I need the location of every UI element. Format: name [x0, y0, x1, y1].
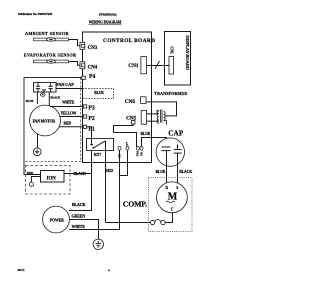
svg-text:Publication No. 5995547290: Publication No. 5995547290: [18, 12, 53, 16]
svg-text:WHITE: WHITE: [72, 224, 86, 229]
svg-text:WIRING DIAGRAM: WIRING DIAGRAM: [89, 21, 122, 25]
wire ambient sensor to CN3: [69, 40, 81, 46]
svg-text:GREEN: GREEN: [72, 214, 86, 219]
svg-text:S: S: [176, 186, 178, 190]
connector CN3: [80, 42, 85, 49]
dashed blue box on board: [83, 89, 114, 99]
svg-text:CAP: CAP: [168, 130, 184, 137]
svg-text:RED: RED: [105, 168, 113, 173]
wire power white: [69, 150, 120, 230]
cap case marker: [41, 93, 46, 96]
wire CN6 to transformer secondary: [146, 102, 177, 116]
svg-text:P4: P4: [89, 74, 95, 80]
wire evaporator sensor to CN4: [69, 62, 81, 66]
svg-text:DISPLAY BOARD: DISPLAY BOARD: [185, 35, 190, 70]
board interior square pad: [132, 121, 136, 125]
compressor dotted box: [149, 178, 193, 232]
wire pad P7 to white neutral: [120, 150, 128, 175]
wire P1 to RY7: [87, 127, 92, 139]
ground (power): [93, 239, 103, 249]
connector CN1 (display): [169, 57, 174, 75]
wire fan cap to board blue box: [56, 88, 83, 90]
wire overload to RY7: [106, 222, 149, 224]
ambient sensor: [34, 38, 69, 41]
svg-text:COMP.: COMP.: [123, 200, 147, 209]
svg-text:ION: ION: [47, 176, 57, 181]
wire CN5 to transformer primary: [147, 111, 159, 114]
svg-text:POWER: POWER: [50, 218, 64, 222]
svg-text:BLUE: BLUE: [94, 91, 104, 95]
pad P8: [118, 146, 121, 150]
capacitor CAP: [156, 138, 184, 166]
wire pad P9 to blue cap wire: [142, 138, 151, 147]
wire cap to compressor R: [166, 166, 168, 184]
wire fan cap blue to motor: [36, 92, 38, 104]
ION dashed box: [26, 166, 71, 195]
svg-text:CN4: CN4: [88, 66, 98, 71]
wire board blue to cap: [151, 138, 167, 148]
pad P9: [140, 146, 143, 150]
svg-text:P9: P9: [140, 152, 144, 156]
svg-text:CN1: CN1: [170, 46, 175, 54]
wire power green to ground: [69, 220, 98, 242]
svg-text:BLUE: BLUE: [141, 132, 151, 136]
overload protector: [149, 220, 166, 225]
svg-text:RED: RED: [27, 171, 34, 175]
svg-text:YELLOW: YELLOW: [61, 111, 77, 115]
svg-text:FAN MOTOR: FAN MOTOR: [33, 119, 56, 123]
svg-text:CN5: CN5: [126, 115, 137, 121]
display board box: [165, 32, 191, 86]
svg-text:4: 4: [108, 268, 110, 272]
wire fan motor white to P3: [50, 106, 82, 108]
ground (fan motor): [33, 148, 41, 156]
transformer: [157, 110, 166, 125]
pad P10: [136, 146, 139, 150]
svg-text:BLACK: BLACK: [72, 202, 87, 207]
wire ION black to main black: [64, 173, 92, 175]
svg-text:P8: P8: [118, 154, 122, 158]
svg-text:BLUE: BLUE: [26, 99, 34, 103]
svg-text:RED: RED: [64, 121, 72, 125]
svg-text:CN3: CN3: [88, 46, 98, 51]
board interior wiring: [114, 124, 137, 147]
ion discharge symbol: [29, 177, 41, 188]
ION box: [41, 171, 65, 183]
wire fan cap black to motor: [48, 92, 50, 106]
svg-text:P2: P2: [88, 116, 94, 122]
connector CN1 (control board): [141, 57, 147, 74]
fan area dashed box: [24, 78, 81, 162]
svg-text:CN6: CN6: [125, 99, 136, 105]
connector CN5: [141, 111, 146, 125]
connector CN6: [141, 97, 146, 104]
pin P4: [82, 76, 86, 79]
pin P1: [83, 125, 86, 128]
wire fan motor to ground: [37, 134, 39, 148]
svg-text:RY7: RY7: [94, 153, 101, 157]
pin P3: [83, 105, 86, 108]
svg-text:P7: P7: [125, 142, 129, 146]
fan motor: [30, 105, 61, 136]
svg-text:BLACK: BLACK: [179, 170, 192, 174]
svg-text:R: R: [166, 186, 169, 190]
pad P7: [126, 146, 129, 150]
fan capacitor: [34, 83, 57, 93]
wire fan motor red to P1: [59, 126, 82, 128]
svg-text:AMBIENT SENSOR: AMBIENT SENSOR: [25, 31, 70, 36]
wire power black: [69, 151, 92, 211]
svg-text:M: M: [168, 192, 178, 203]
svg-text:06/14: 06/14: [18, 268, 25, 272]
control board box: [83, 32, 152, 163]
evaporator sensor: [34, 60, 69, 63]
wire P4 to ION (red): [24, 78, 82, 175]
wire RY7 to compressor overload: [105, 151, 107, 223]
svg-text:EVAPORATOR SENSOR: EVAPORATOR SENSOR: [24, 53, 77, 58]
svg-text:CONTROL BOARD: CONTROL BOARD: [103, 38, 155, 44]
wire CN1 to display board: [146, 65, 169, 67]
svg-text:BLACK: BLACK: [51, 95, 62, 99]
svg-text:TRANSFORMER: TRANSFORMER: [154, 91, 187, 96]
svg-text:FAN CAP: FAN CAP: [56, 82, 74, 87]
power cord: [43, 206, 70, 233]
cable slash: [155, 61, 160, 69]
relay RY7: [87, 139, 114, 151]
compressor motor: [157, 182, 188, 213]
svg-text:WHITE: WHITE: [62, 101, 75, 105]
connector CN4: [80, 62, 85, 69]
svg-text:P3: P3: [88, 106, 94, 112]
svg-text:BLUE: BLUE: [156, 170, 166, 174]
pin P2: [83, 115, 86, 118]
wire cap to compressor S: [177, 165, 179, 184]
svg-text:CN1: CN1: [128, 63, 139, 69]
wire fan motor yellow to P2: [60, 116, 82, 118]
svg-text:C: C: [171, 208, 174, 212]
wire compressor C to overload: [165, 213, 172, 223]
svg-text:FFRE0833Q1: FFRE0833Q1: [99, 12, 117, 16]
